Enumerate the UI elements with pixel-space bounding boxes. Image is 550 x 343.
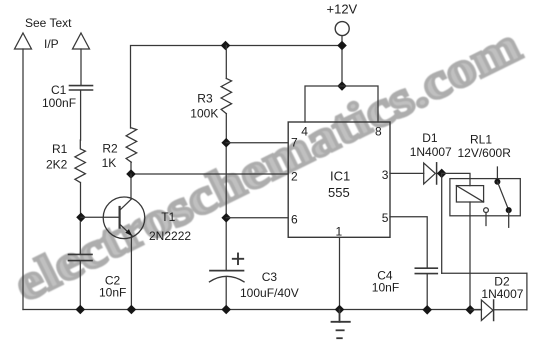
capacitor C3 (electrolytic) xyxy=(210,254,245,310)
junction pin 6 node xyxy=(221,213,231,223)
relay RL1 xyxy=(450,179,520,216)
svg-text:IC1: IC1 xyxy=(330,169,350,184)
svg-text:1: 1 xyxy=(336,224,343,238)
svg-text:D1: D1 xyxy=(422,131,438,145)
wire: across to D2 cathode rail xyxy=(442,272,527,274)
svg-text:12V/600R: 12V/600R xyxy=(458,146,512,160)
junction R2/collector node xyxy=(126,169,136,179)
resistor R2 xyxy=(126,128,137,162)
junction C2/ground bus xyxy=(76,305,86,315)
wire: pin 6 xyxy=(226,217,288,219)
svg-text:+12V: +12V xyxy=(327,2,358,17)
svg-text:7: 7 xyxy=(291,135,298,149)
wire: bottom ground bus xyxy=(23,309,482,311)
diode D2 xyxy=(470,300,527,321)
junction C3/ground bus xyxy=(221,305,231,315)
wire: pin 3 to D1 xyxy=(390,172,424,174)
wire: R3 bottom to pin7 node xyxy=(225,114,227,143)
wire: left rail xyxy=(22,49,24,310)
wire: +12V drop xyxy=(341,36,343,86)
svg-text:RL1: RL1 xyxy=(470,132,492,146)
relay NO stub xyxy=(508,210,510,227)
wire: R1 bottom to base node xyxy=(80,183,82,218)
junction D1 cathode node xyxy=(437,169,447,179)
svg-text:100nF: 100nF xyxy=(42,96,76,110)
junction R3 top xyxy=(221,41,231,51)
relay switch pivot xyxy=(494,179,500,185)
capacitor C2 xyxy=(69,222,93,310)
wire: right rail down to D2 cathode xyxy=(526,273,528,310)
wire: R2 bottom to node xyxy=(130,162,132,174)
wire: D1 node to relay coil top xyxy=(442,173,470,185)
wire: R3 top lead xyxy=(225,46,227,79)
svg-text:10nF: 10nF xyxy=(372,281,399,295)
svg-text:6: 6 xyxy=(291,213,298,227)
svg-text:100K: 100K xyxy=(190,106,218,120)
junction +12V rail xyxy=(337,41,347,51)
wire: pin 1 to ground bus xyxy=(339,237,341,309)
svg-text:5: 5 xyxy=(382,211,389,225)
relay switch blade xyxy=(497,182,508,210)
capacitor C1 xyxy=(70,49,93,140)
svg-text:T1: T1 xyxy=(161,210,175,224)
+12V terminal circle xyxy=(335,22,349,36)
capacitor C4 xyxy=(415,268,437,310)
wire: emitter down to ground bus xyxy=(130,236,132,310)
svg-text:1N4007: 1N4007 xyxy=(481,287,523,301)
svg-text:3: 3 xyxy=(382,168,389,182)
wire: top +12V rail xyxy=(131,46,343,129)
wire: relay coil bottom to ground bus xyxy=(469,202,471,310)
svg-text:2N2222: 2N2222 xyxy=(149,229,191,243)
diode D1 xyxy=(424,163,442,184)
input terminal arrow (left) xyxy=(15,33,32,49)
svg-text:555: 555 xyxy=(328,185,350,200)
relay NC stub xyxy=(485,213,487,226)
node line: pin7/pin6/C3 column xyxy=(225,143,227,270)
wire: collector up to node xyxy=(130,174,132,199)
resistor R1 xyxy=(75,140,86,183)
svg-text:100uF/40V: 100uF/40V xyxy=(240,286,299,300)
wire: supply bracket to pins 4 and 8 xyxy=(305,86,378,122)
svg-text:R3: R3 xyxy=(197,92,213,106)
relay NC contact xyxy=(484,208,489,213)
junction pin 7 node xyxy=(221,138,231,148)
wire: pin 2 to collector node xyxy=(131,173,288,175)
svg-text:C1: C1 xyxy=(51,83,67,97)
relay switch NO contact xyxy=(506,207,512,213)
junction C4/ground bus xyxy=(422,305,432,315)
wire: pin 5 to C4 xyxy=(390,217,427,268)
svg-text:1K: 1K xyxy=(102,156,117,170)
svg-text:C3: C3 xyxy=(262,270,278,284)
junction base node xyxy=(76,213,86,223)
svg-text:2K2: 2K2 xyxy=(46,157,68,171)
svg-text:I/P: I/P xyxy=(44,37,59,51)
ground xyxy=(332,310,350,339)
svg-text:10nF: 10nF xyxy=(99,285,126,299)
svg-text:electroschematics.com: electroschematics.com xyxy=(6,17,529,312)
relay switch common stub xyxy=(496,167,498,182)
junction coil/D2 anode node xyxy=(465,305,475,315)
transistor T1 xyxy=(103,197,145,239)
wire: base xyxy=(81,216,119,218)
op-amp/timer IC1 555 box xyxy=(288,122,390,237)
svg-text:4: 4 xyxy=(301,124,308,138)
wire: D1 node down xyxy=(441,173,443,273)
svg-text:See Text: See Text xyxy=(25,16,72,30)
input terminal arrow I/P (right) xyxy=(73,33,90,49)
svg-text:8: 8 xyxy=(375,124,382,138)
svg-text:R1: R1 xyxy=(52,142,68,156)
svg-text:2: 2 xyxy=(291,169,298,183)
resistor R3 xyxy=(221,78,232,113)
svg-text:1N4007: 1N4007 xyxy=(410,145,452,159)
svg-text:R2: R2 xyxy=(102,141,118,155)
junction ground node xyxy=(335,305,345,315)
junction emitter/ground bus xyxy=(127,305,137,315)
junction supply split xyxy=(337,81,347,91)
wire: pin 7 xyxy=(226,142,288,144)
